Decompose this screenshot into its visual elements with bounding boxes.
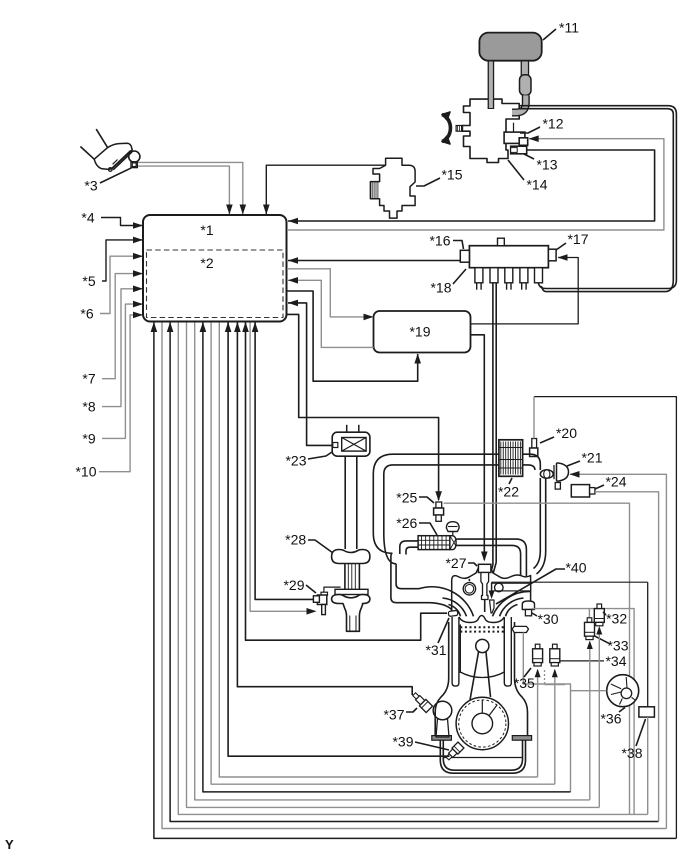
label *32 with pointer — [603, 610, 627, 626]
label *24 with pointer — [595, 473, 627, 489]
wire ECU to *19 bottom — [287, 291, 421, 381]
wire loop ECU to *20 — [151, 322, 677, 838]
crankshaft — [456, 697, 508, 749]
wire riser to *20 sensor corridor — [534, 397, 676, 839]
EGR valve *29 — [313, 592, 327, 614]
wire *29 to ECU — [252, 322, 314, 599]
wire air flow meter *23 to ECU — [288, 300, 334, 446]
label *38 with pointer — [621, 719, 645, 761]
svg-text:*24: *24 — [605, 473, 626, 489]
oil pan — [440, 740, 525, 773]
label *5 with wire to ECU — [82, 237, 143, 289]
rail injector stubs with pins — [475, 268, 543, 290]
VSV *33 — [585, 618, 595, 640]
wire *13 to ECU (via right corridor) — [288, 150, 655, 221]
svg-text:*27: *27 — [445, 555, 466, 571]
component *24 (vacuum regulator) — [571, 485, 595, 497]
wire VSV *34R branch — [544, 670, 546, 685]
label *6 with wire to ECU — [80, 253, 143, 322]
svg-text:*6: *6 — [80, 306, 93, 322]
label *8 with wire to ECU — [82, 286, 143, 415]
wire ECU to *12 (via right corridor) — [287, 139, 664, 230]
label *17 with pointer — [556, 231, 589, 250]
svg-text:*33: *33 — [607, 637, 628, 653]
wire riser arrow to *34L — [535, 669, 541, 777]
wire riser arrow to *32 — [596, 626, 602, 807]
ECU *1 (engine control module box) — [143, 215, 287, 322]
svg-text:*32: *32 — [606, 610, 627, 626]
cylinder sensor *31 nub — [448, 610, 458, 616]
label *18 with pointer — [430, 269, 466, 296]
high pressure pipe rail to injector *27 — [492, 283, 494, 565]
charge pipe turbo to intercooler — [373, 454, 499, 564]
VSV *34 left (*35) — [533, 644, 543, 666]
piston with rings — [460, 625, 504, 701]
wire *31 to ECU — [246, 323, 448, 641]
svg-text:*3: *3 — [84, 178, 97, 194]
wire ECU to sensor *25 — [287, 314, 442, 501]
fuel temperature sensor *13 — [511, 146, 527, 154]
fuel temperature sensor *25 — [434, 502, 444, 521]
wire *29 top to intake duct — [324, 587, 341, 592]
VSV *34 right — [550, 644, 560, 666]
label *29 with pointer — [283, 577, 316, 593]
wire *19 to injector *27 — [471, 335, 488, 562]
wire riser to *38 / glow circuit — [647, 582, 649, 814]
label *39 with pointer — [392, 733, 449, 750]
svg-text:*11: *11 — [559, 20, 579, 36]
turbo inlet flex collar *28 (upper) — [332, 550, 370, 590]
engine block outer flares and mounts — [432, 622, 532, 740]
wire ECU to *29 (arrow) — [250, 323, 316, 615]
knock sensor *37 bolt — [411, 691, 433, 713]
svg-text:*4: *4 — [81, 210, 94, 226]
wire pedal to ECU (upper) — [138, 162, 243, 214]
pipe intercooler to throttle coupling — [523, 454, 554, 478]
label *37 with pointer — [383, 707, 417, 723]
svg-text:*35: *35 — [514, 675, 535, 691]
ECU inner dashed section *2 — [147, 250, 284, 318]
wire riser arrow to *33 — [587, 641, 593, 800]
high pressure fuel line pump to rail (right corridor) — [519, 106, 676, 289]
pipe coupling down to intake manifold — [540, 478, 545, 552]
label *16 with pointer — [429, 233, 463, 250]
label *11 with pointer — [543, 20, 579, 41]
wire pedal to ECU (lower) — [138, 166, 229, 214]
svg-text:Y: Y — [5, 837, 14, 852]
turbo inlet flex collar lower — [332, 589, 370, 631]
label *34 with pointer line — [561, 653, 627, 669]
svg-text:*39: *39 — [392, 733, 413, 749]
wire loop ECU to *24 — [167, 322, 659, 822]
wire ECU to *19 (left arrow) — [287, 269, 374, 320]
svg-text:*31: *31 — [425, 642, 446, 658]
air cleaner *23 — [332, 425, 370, 456]
svg-text:*40: *40 — [565, 559, 586, 575]
label *22 with pointer — [498, 478, 519, 500]
label *30 with pointer — [532, 611, 559, 627]
wire trapezoid riser (loop7) — [523, 633, 570, 792]
svg-text:*22: *22 — [498, 484, 519, 500]
svg-text:*16: *16 — [429, 233, 450, 249]
label *21 with pointer — [567, 449, 603, 466]
label *33 with pointer — [594, 636, 629, 654]
label *26 with pointer — [396, 515, 437, 535]
intake duct air cleaner to turbo inlet — [345, 456, 357, 549]
label *12 with pointer — [520, 116, 564, 134]
label *40 with pointer — [496, 559, 587, 604]
svg-text:*13: *13 — [536, 157, 557, 173]
svg-text:*30: *30 — [537, 611, 558, 627]
label *4 with wire to ECU — [81, 210, 143, 229]
svg-text:*17: *17 — [567, 231, 588, 247]
wire *36 to trapezoid riser (T) — [571, 690, 607, 692]
label *36 with pointer — [600, 708, 625, 727]
svg-text:*20: *20 — [556, 425, 577, 441]
wire loop ECU to *33 — [195, 323, 590, 800]
oil glow bolt *39 — [445, 742, 464, 761]
boost pressure sensor *20 — [530, 439, 538, 457]
svg-text:*1: *1 — [200, 222, 213, 238]
svg-text:*5: *5 — [82, 273, 95, 289]
fuel pipe tank to pump (left) — [488, 61, 495, 109]
common rail body *16 — [460, 238, 556, 268]
intercooler *22 — [499, 440, 523, 477]
wire *30 to *32 and down to loop — [532, 609, 635, 815]
svg-text:*36: *36 — [600, 711, 621, 727]
label *10 with wire to ECU — [75, 312, 143, 480]
svg-text:*14: *14 — [526, 177, 547, 193]
wire *25 output to right corridor — [444, 503, 630, 814]
component *15 — [370, 158, 415, 218]
driver unit *19 — [374, 311, 471, 353]
fuel tank *11 — [479, 33, 541, 61]
label *31 with pointer — [425, 618, 449, 658]
pipe *26 left to intake elbow — [400, 541, 418, 555]
cylinder block walls — [452, 616, 511, 687]
svg-text:*26: *26 — [396, 515, 417, 531]
svg-text:*25: *25 — [396, 489, 417, 505]
label *3 with pointer — [84, 168, 131, 194]
svg-text:*18: *18 — [430, 280, 451, 296]
VSV *32 — [594, 604, 604, 626]
wire loop ECU to trapezoid — [200, 322, 571, 792]
svg-text:*37: *37 — [383, 707, 404, 723]
pump rotation arrow — [442, 112, 450, 144]
wire loop ECU to *34L — [219, 323, 537, 778]
svg-text:*34: *34 — [605, 653, 626, 669]
wire loop ECU to *21 — [162, 323, 666, 829]
svg-text:*8: *8 — [82, 399, 95, 415]
svg-text:*21: *21 — [581, 449, 602, 465]
cooler *26 with cap — [418, 536, 456, 550]
wire loop ECU to *38/*40 — [178, 323, 647, 815]
wire *39 to ECU — [225, 322, 450, 756]
cylinder head with intake runners — [391, 551, 546, 617]
wire *38 to glow plug *40 — [492, 581, 648, 583]
label *27 with pointer — [445, 555, 477, 571]
svg-text:*12: *12 — [542, 116, 563, 132]
svg-text:*10: *10 — [75, 464, 96, 480]
label *35 with pointer — [514, 668, 535, 691]
fuel supply pump body *14 — [456, 99, 519, 162]
label *13 with pointer — [524, 154, 558, 173]
sensor *30 on head — [522, 601, 534, 616]
fuel pipe filter to pump elbow — [512, 95, 526, 112]
svg-text:*19: *19 — [409, 324, 430, 340]
wire *37 to ECU — [234, 322, 412, 695]
wire *15 to ECU top — [266, 165, 385, 214]
svg-text:*15: *15 — [441, 167, 462, 183]
wire riser to *24 — [595, 492, 659, 822]
label *25 with pointer — [396, 489, 434, 505]
svg-text:*29: *29 — [283, 577, 304, 593]
accelerator pedal *3 — [80, 129, 139, 171]
svg-text:*38: *38 — [621, 745, 642, 761]
pipe *26 right to exhaust port — [456, 539, 526, 576]
svg-text:*28: *28 — [285, 531, 306, 547]
wire loop ECU to *34R — [211, 323, 555, 785]
svg-text:*9: *9 — [82, 430, 95, 446]
glow relay *38 — [639, 707, 655, 717]
wire *19 to ECU — [288, 277, 374, 347]
label *9 with wire to ECU — [82, 301, 143, 447]
wire rail *16 to ECU — [288, 260, 460, 262]
svg-text:*7: *7 — [82, 371, 95, 387]
diesel throttle *21 — [554, 463, 569, 489]
fuel pipe tank to filter (right) — [521, 61, 530, 76]
label *7 with wire to ECU — [82, 270, 143, 386]
coolant pump circle near *37 — [433, 701, 452, 737]
glow plug *40 and wire from *38 — [489, 582, 495, 613]
wire riser arrow to *34R — [552, 669, 558, 785]
suction control valve *12 — [504, 123, 528, 146]
EGR cooler fitting (trapezoid) on exhaust — [512, 626, 528, 632]
svg-text:*2: *2 — [200, 255, 213, 271]
fuel filter capsule — [520, 75, 532, 96]
wire *19 to rail sensor *17 — [471, 254, 579, 324]
wire riser to *21 arrow — [570, 471, 667, 829]
svg-text:*23: *23 — [285, 453, 306, 469]
label *20 with pointer — [540, 425, 577, 443]
wire loop ECU to *32 — [187, 323, 600, 808]
label *14 with pointer — [508, 160, 548, 193]
label *28 with pointer — [285, 531, 333, 553]
label *15 with pointer — [416, 167, 463, 187]
injector *27 — [478, 564, 491, 612]
label *23 with pointer — [285, 452, 332, 469]
viscous fan / alternator *36 — [607, 675, 639, 707]
pressure regulator mushroom above *26 — [446, 522, 459, 536]
